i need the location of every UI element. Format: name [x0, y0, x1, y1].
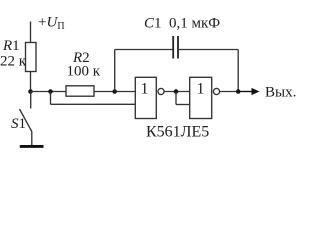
label +Uп power node [38, 15, 65, 33]
label Вых. output [265, 85, 296, 101]
wire lower input line to gate 1 [51, 103, 136, 105]
svg-text:1: 1 [197, 81, 205, 98]
label R2 [72, 50, 90, 66]
node E output junction dot [236, 89, 241, 94]
label C1 0,1 мкФ [144, 16, 220, 32]
svg-text:К561ЛЕ5: К561ЛЕ5 [146, 124, 209, 141]
node B junction dot [48, 89, 53, 94]
svg-text:100 к: 100 к [67, 64, 101, 80]
wire node B drop down [50, 92, 52, 105]
label 22 к value of R1 [0, 54, 27, 70]
svg-text:C1 0,1 мкФ: C1 0,1 мкФ [144, 16, 220, 32]
wire top rail right of C1 [178, 49, 238, 51]
wire supply lead to R1 [30, 22, 32, 43]
label 100 к value of R2 [67, 64, 101, 80]
switch S1 bottom lead [31, 132, 33, 146]
label К561ЛЕ5 IC type [146, 124, 209, 141]
svg-text:22 к: 22 к [0, 54, 27, 70]
wire feedback left vertical [114, 50, 116, 92]
switch S1 arm [20, 109, 32, 132]
gate U1.1 К561ЛЕ5 element 1 [135, 77, 164, 118]
resistor R1 [26, 43, 37, 72]
wire top rail left of C1 [115, 49, 174, 51]
switch S1 top lead [30, 92, 32, 109]
gate U1.2 К561ЛЕ5 element 2 [190, 77, 220, 118]
node A junction dot [28, 89, 33, 94]
resistor R2 [66, 86, 94, 96]
node D junction dot [174, 89, 179, 94]
output arrow [238, 88, 259, 95]
svg-text:Вых.: Вых. [265, 85, 296, 101]
wire node A to node B to R2 [31, 91, 67, 93]
wire gate 1 output to node D [164, 91, 190, 93]
svg-text:1: 1 [141, 81, 149, 98]
svg-text:R1: R1 [2, 38, 20, 54]
label R1 [2, 38, 20, 54]
wire node D drop to gate 2 lower input [176, 92, 190, 105]
svg-text:S1: S1 [11, 116, 26, 132]
wire R2 to gate 1 upper input [94, 91, 135, 93]
wire gate 2 output to node E [220, 91, 239, 93]
node C feedback junction dot [112, 89, 117, 94]
wire R1 bottom to node A [30, 72, 32, 93]
ground bar [20, 145, 44, 148]
wire feedback right vertical [237, 50, 239, 92]
capacitor C1 [173, 36, 178, 59]
label S1 [11, 116, 26, 132]
